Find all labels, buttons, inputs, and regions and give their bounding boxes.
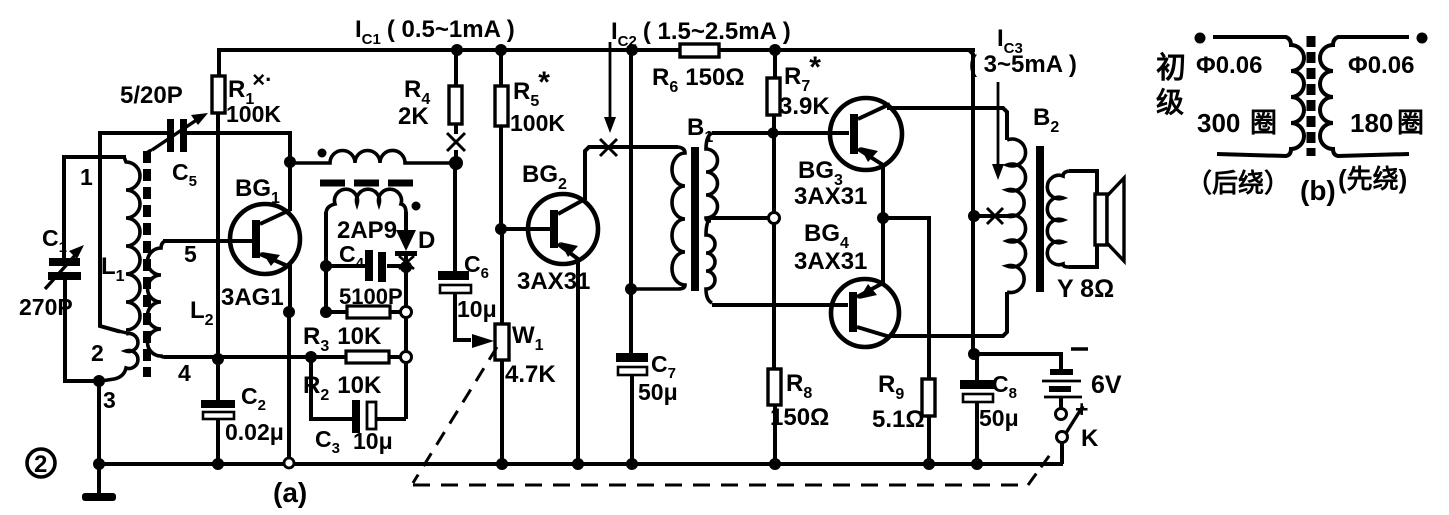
wire BG2 emitter to ground: [576, 258, 580, 464]
svg-text:2: 2: [34, 451, 47, 478]
svg-text:180: 180: [1350, 108, 1393, 138]
wire BG1 emitter to ground rail: [287, 312, 291, 458]
node R7 top junction: [769, 44, 781, 56]
transistor BG2: [528, 194, 598, 264]
node detail b primary start dot: [1195, 33, 1206, 44]
wire C2 leads: [216, 359, 220, 401]
core of B2: [1036, 146, 1044, 292]
transformer B1 secondary bottom winding: [706, 218, 715, 303]
wire R4 to detector node: [454, 150, 458, 163]
capacitor C3: [352, 400, 376, 433]
wiper arrow of W1: [472, 334, 494, 348]
core of B1: [691, 147, 699, 291]
capacitor C7: [616, 353, 648, 464]
node BG2 emitter ground junction: [572, 458, 584, 470]
wire B1 secondary bottom to BG4 base: [712, 303, 848, 307]
node detector output junction: [449, 156, 463, 170]
wire BG4 emitter riser: [881, 218, 885, 284]
wire R5 node down to W1: [500, 229, 504, 326]
svg-text:5: 5: [184, 241, 197, 267]
transistor BG1: [230, 204, 300, 274]
wire C6 to W1 wiper: [455, 293, 471, 340]
svg-text:初: 初: [1156, 52, 1186, 85]
wire B1 secondary top to BG3 base: [712, 131, 849, 135]
wire detector node down to C6: [453, 163, 457, 272]
oscillation coil top winding: [290, 150, 450, 163]
wire BG1 collector riser: [288, 162, 292, 211]
svg-text:50μ: 50μ: [638, 379, 678, 405]
svg-text:50μ: 50μ: [979, 405, 1019, 431]
wire C5 line to tap 2: [100, 133, 166, 331]
capacitor C4: [365, 250, 386, 282]
svg-text:3AX31: 3AX31: [794, 248, 867, 275]
svg-text:6V: 6V: [1091, 371, 1122, 399]
node ring center tap junction: [769, 213, 780, 224]
node C2 ground junction: [212, 458, 224, 470]
wire top supply rail: [219, 48, 973, 52]
node R9 ground junction: [923, 458, 935, 470]
wire R1 column down to tap4 node: [216, 133, 220, 359]
wire C3 loop: [311, 357, 352, 419]
wire L2 bottom / tap 4 row: [166, 355, 311, 359]
wire detector right column: [404, 267, 408, 419]
capacitor C2: [201, 400, 235, 419]
node open ring on ground rail: [284, 458, 294, 468]
switch K: [1056, 406, 1084, 464]
svg-text:D: D: [418, 227, 435, 254]
svg-text:5.1Ω: 5.1Ω: [872, 406, 925, 433]
figure number circled 2: [27, 449, 55, 478]
svg-text:1: 1: [80, 164, 93, 190]
transistor BG3: [830, 98, 902, 170]
resistor R1: [212, 50, 225, 135]
wire bottom ground rail: [98, 462, 1061, 466]
node W1 bottom junction: [496, 458, 508, 470]
node C8 ground junction: [971, 458, 983, 470]
node phase dot secondary winding: [412, 202, 421, 211]
svg-text:0.02μ: 0.02μ: [225, 419, 284, 445]
transformer B1 primary winding: [631, 147, 685, 289]
wire speaker bottom: [1069, 245, 1097, 267]
resistor R3: [326, 306, 401, 318]
wire tank bottom to ground rail: [97, 381, 101, 464]
svg-text:10μ: 10μ: [353, 428, 393, 454]
speaker Y: [1095, 178, 1124, 261]
arrow IC3 measuring: [992, 82, 1004, 180]
capacitor C8: [960, 354, 995, 464]
node C7 ground junction: [626, 458, 638, 470]
wire BG1 emitter drop: [288, 265, 292, 312]
potentiometer W1: [495, 324, 509, 464]
svg-text:10μ: 10μ: [457, 296, 497, 322]
wire BG2 collector riser: [585, 147, 678, 200]
svg-text:4: 4: [178, 360, 191, 386]
svg-text:3.9K: 3.9K: [779, 93, 830, 120]
svg-text:100K: 100K: [510, 110, 565, 136]
svg-text:2: 2: [91, 340, 104, 366]
svg-text:(先绕): (先绕): [1338, 164, 1407, 194]
node tap4 / C2 junction: [212, 353, 224, 365]
node BG1 emitter junction: [283, 306, 295, 318]
wire R6/C7 column: [629, 50, 633, 355]
svg-text:150Ω: 150Ω: [770, 404, 829, 431]
node C4 left junction: [320, 260, 332, 272]
wire C1 left branch: [62, 157, 66, 258]
transformer B1 secondary top winding: [706, 133, 718, 221]
node emitters junction: [877, 212, 889, 224]
measuring point X on B2 tap: [987, 208, 1003, 224]
wire BG3 emitter drop: [881, 163, 885, 218]
wire to battery: [974, 354, 1061, 370]
wire L2 top to BG1 base: [165, 239, 250, 243]
svg-text:（后绕）: （后绕）: [1186, 168, 1290, 198]
measuring point X below R4: [447, 133, 465, 151]
node detail b secondary start dot: [1417, 33, 1428, 44]
svg-text:3AG1: 3AG1: [221, 284, 284, 311]
node R7 base junction: [768, 128, 779, 139]
node ring R3 right: [401, 307, 412, 318]
wire BG3 collector to B2: [889, 105, 1007, 140]
resistor R2: [311, 351, 401, 363]
trimmer capacitor C5: [146, 113, 208, 155]
measuring point X on BG2 collector: [600, 139, 617, 156]
node BG2 base junction: [495, 223, 507, 235]
ferrite core of L1/L2: [143, 151, 151, 377]
svg-text:圈: 圈: [1250, 108, 1277, 138]
inductor L2: [148, 241, 167, 357]
wire emitters to R9: [883, 218, 929, 379]
wire BG4 collector to B2 bottom: [889, 292, 1007, 336]
battery 6V: [1042, 369, 1082, 408]
svg-text:( 3~5mA ): ( 3~5mA ): [969, 51, 1077, 78]
node phase dot top winding: [318, 149, 327, 158]
wire tank top: [64, 155, 124, 159]
svg-text:3: 3: [103, 387, 116, 413]
wire C4 row: [326, 264, 365, 268]
svg-text:2K: 2K: [398, 103, 429, 130]
variable capacitor C1: [45, 245, 84, 289]
svg-text:级: 级: [1156, 87, 1184, 118]
ferrite core of oscillation coil: [320, 180, 417, 187]
resistor R4: [449, 50, 462, 134]
node B1 primary bottom junction: [625, 283, 637, 295]
node BG1 collector junction: [284, 156, 296, 168]
svg-text:270P: 270P: [19, 294, 73, 320]
wire detector left column: [324, 212, 328, 312]
node R6 left junction: [626, 44, 638, 56]
svg-text:300: 300: [1197, 108, 1240, 138]
resistor R8: [768, 369, 781, 464]
svg-text:2AP9: 2AP9: [337, 217, 397, 244]
label minus: [1071, 347, 1088, 350]
resistor R9: [922, 379, 935, 464]
ground: [82, 464, 116, 501]
node ground rail left junction: [93, 458, 105, 470]
detail b secondary winding: [1320, 37, 1409, 156]
node tank bottom junction: [93, 375, 105, 387]
svg-text:Y 8Ω: Y 8Ω: [1057, 275, 1114, 303]
transformer B2 primary winding: [1007, 139, 1026, 293]
node R2 left junction: [305, 351, 317, 363]
transistor BG4: [831, 279, 899, 347]
detail b primary winding: [1213, 37, 1304, 156]
svg-text:3AX31: 3AX31: [794, 183, 867, 210]
wire L1 tap 2: [118, 331, 127, 333]
svg-text:Φ0.06: Φ0.06: [1348, 52, 1414, 79]
wire supply column from top rail: [969, 50, 973, 354]
transformer B2 secondary winding: [1047, 171, 1069, 267]
node R8 ground junction: [769, 458, 781, 470]
wire B1 center tap: [710, 216, 768, 220]
capacitor C6: [438, 271, 471, 293]
resistor R7: [767, 50, 780, 133]
dashed gang line W1 to K: [413, 347, 1052, 485]
wire C5 right to R1 junction: [187, 133, 290, 162]
svg-text:圈: 圈: [1397, 108, 1424, 138]
node R5 top junction: [495, 44, 507, 56]
node B2 center tap junction: [968, 210, 980, 222]
svg-text:4.7K: 4.7K: [505, 361, 556, 388]
diode D 2AP9: [395, 212, 417, 269]
wire speaker top: [1069, 171, 1097, 195]
oscillation coil secondary winding: [326, 189, 406, 214]
node R3 left junction: [320, 306, 332, 318]
node C8 top junction: [968, 348, 980, 360]
wire R7 column down to R8: [772, 133, 776, 369]
node diode cathode junction: [400, 261, 412, 273]
resistor R5: [495, 50, 508, 229]
svg-text:5/20P: 5/20P: [120, 82, 183, 109]
svg-text:(b): (b): [1300, 175, 1336, 206]
svg-text:K: K: [1081, 425, 1099, 452]
svg-text:100K: 100K: [226, 101, 281, 127]
arrow IC2 measuring: [604, 42, 616, 133]
wire B2 center tap: [974, 214, 1008, 218]
node R4 top junction: [451, 44, 463, 56]
svg-text:(a): (a): [273, 477, 307, 508]
wire BG2 base: [501, 227, 550, 231]
node ring R2 right: [401, 352, 412, 363]
core of detail b: [1307, 36, 1316, 156]
svg-text:Φ0.06: Φ0.06: [1196, 52, 1262, 79]
inductor L1: [101, 157, 140, 381]
resistor R6: [680, 44, 719, 57]
